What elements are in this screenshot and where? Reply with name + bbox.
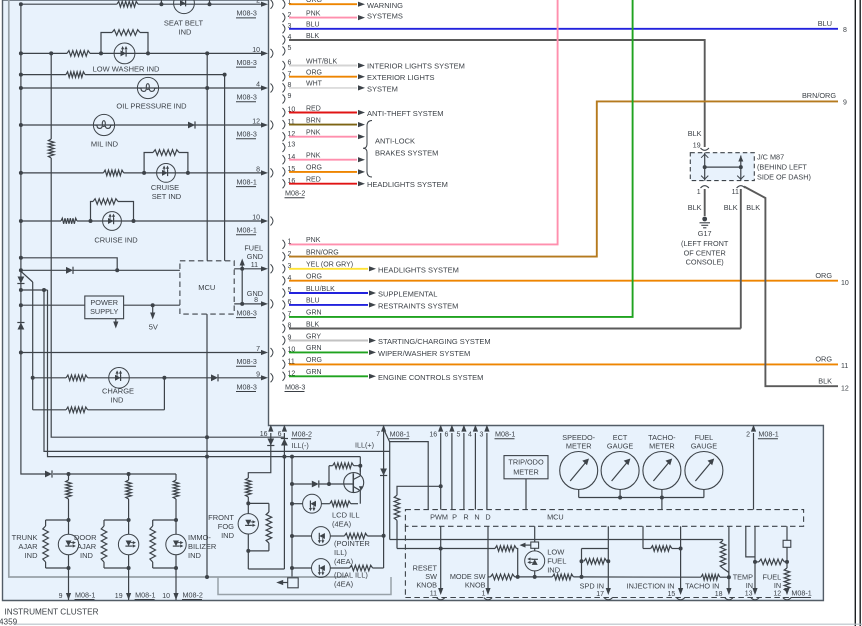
node door ajar ind bot: [127, 566, 131, 570]
arrow mode pin 1: [485, 588, 490, 595]
svg-text:(LEFT FRONT: (LEFT FRONT: [681, 239, 729, 248]
LED front fog ind: [238, 514, 258, 534]
wire spd in: [607, 526, 609, 590]
svg-text:TACHO-: TACHO-: [648, 433, 676, 442]
svg-text:BLU: BLU: [818, 19, 832, 28]
transistor lcd: [344, 473, 364, 493]
connector M08-3 pin 3: [283, 264, 285, 273]
svg-text:M08-1: M08-1: [390, 430, 410, 439]
LED low fuel ind: [534, 548, 536, 551]
svg-text:PNK: PNK: [306, 10, 321, 17]
svg-text:M08-3: M08-3: [237, 382, 257, 391]
wire ps gnd: [115, 319, 117, 322]
wire jc right exit: [740, 167, 742, 181]
LED cruise ind: [103, 212, 122, 231]
svg-text:FUEL: FUEL: [695, 433, 714, 442]
svg-text:GAUGE: GAUGE: [691, 442, 717, 451]
spd loop: [582, 548, 609, 550]
wire oil pressure row: [21, 87, 263, 89]
node ledbus pointer: [290, 534, 294, 538]
svg-text:DOOR: DOOR: [74, 533, 97, 542]
svg-text:KNOB: KNOB: [465, 581, 486, 590]
wire inj left vert: [642, 526, 644, 548]
hook mode pin: [484, 598, 492, 600]
svg-text:J/C M87: J/C M87: [757, 153, 784, 162]
wire m3 pin7 GRN: [289, 0, 633, 317]
svg-text:11: 11: [430, 591, 437, 598]
wire pin7 branch right: [390, 442, 429, 510]
node row3 mcu vert: [223, 73, 227, 77]
svg-text:(4EA): (4EA): [334, 557, 354, 566]
hook fuel pin: [783, 598, 791, 600]
pin 5 m08-1 top: [461, 425, 466, 432]
svg-text:WIPER/WASHER SYSTEM: WIPER/WASHER SYSTEM: [378, 349, 470, 358]
svg-text:11: 11: [841, 363, 848, 370]
svg-text:1: 1: [697, 189, 701, 196]
node trunk ajar ind top: [67, 518, 71, 522]
svg-text:ANTI-LOCK: ANTI-LOCK: [375, 137, 415, 146]
svg-text:17: 17: [596, 591, 604, 598]
svg-text:D: D: [485, 512, 490, 521]
pin 8 arrow: [261, 170, 268, 175]
node wireQ ledbus: [290, 455, 294, 459]
arrow reset pin 11: [438, 588, 443, 595]
hook jc pin19: [701, 148, 709, 150]
diode y484: [312, 481, 319, 488]
svg-text:PNK: PNK: [306, 153, 321, 160]
wire low fuel feed: [534, 526, 536, 542]
node fuel: [785, 560, 789, 564]
node temp: [753, 560, 757, 564]
svg-text:MCU: MCU: [198, 283, 215, 292]
connector M08-3 pin 12: [283, 372, 285, 381]
wire row 290: [21, 289, 48, 291]
connector M08-3 pin 5: [283, 289, 285, 298]
svg-text:(DIAL ILL): (DIAL ILL): [334, 571, 368, 580]
svg-text:PWM: PWM: [430, 512, 448, 521]
arrow ps gnd: [113, 322, 118, 329]
svg-text:1: 1: [482, 591, 486, 598]
node mil bus: [19, 123, 23, 127]
svg-text:INTERIOR LIGHTS SYSTEM: INTERIOR LIGHTS SYSTEM: [367, 62, 465, 71]
connector M08-2 pin 6: [283, 61, 285, 70]
svg-text:OF CENTER: OF CENTER: [684, 248, 726, 257]
indicator feed wire: [53, 473, 176, 475]
node 290 bus: [19, 288, 23, 292]
svg-text:M08-3: M08-3: [285, 382, 305, 391]
resistor tacho lower: [701, 574, 720, 580]
svg-text:5: 5: [456, 432, 460, 439]
svg-text:(BEHIND LEFT: (BEHIND LEFT: [757, 163, 807, 172]
connector M08-2 pin 9: [283, 95, 285, 104]
node cs A: [142, 171, 146, 175]
pin 7 arrow: [261, 350, 268, 355]
MCU dashed box: [180, 261, 234, 314]
connector M08-3 pin 2: [283, 252, 285, 261]
brace anti-lock: [363, 121, 372, 178]
connector M08-2 pin 14: [283, 155, 285, 164]
node gnd: [240, 302, 244, 306]
resistor mode: [491, 574, 515, 580]
svg-text:G17: G17: [698, 229, 712, 238]
pin 16 m08-1 top: [438, 425, 443, 432]
svg-text:4: 4: [256, 82, 260, 89]
resistor fuel row: [759, 559, 785, 565]
wire vert x47: [48, 290, 361, 457]
connector M08-2 pin 15: [283, 167, 285, 176]
diode ill minus 16: [267, 439, 274, 446]
node mode a: [516, 575, 520, 579]
svg-text:AJAR: AJAR: [77, 542, 97, 551]
svg-text:OIL PRESSURE IND: OIL PRESSURE IND: [116, 102, 187, 111]
arrow injection pin 15: [678, 588, 683, 595]
LED pointer ill: [312, 527, 331, 546]
svg-text:ORG: ORG: [815, 271, 832, 280]
wire cruise set row: [21, 172, 104, 174]
svg-text:METER: METER: [513, 468, 539, 477]
arrow spd pin 17: [606, 588, 611, 595]
wire mode sw: [487, 526, 489, 590]
diode indicator feed: [45, 471, 52, 478]
gauge ECT GAUGE: [601, 452, 639, 490]
gauge FUEL GAUGE: [685, 452, 723, 490]
connector M08-2 pin 12: [283, 132, 285, 141]
resistor dial: [350, 565, 373, 571]
svg-text:P: P: [452, 512, 457, 521]
node ci A: [89, 219, 93, 223]
connector M08-3 pin 10: [283, 348, 285, 357]
parallel resistor immobilizer ind: [153, 519, 176, 521]
resistor fuel vert: [784, 568, 790, 591]
svg-text:IN: IN: [746, 581, 753, 590]
wire ill feed down: [396, 520, 398, 548]
wire pin2 PNK: [289, 17, 357, 19]
svg-text:BLK: BLK: [306, 321, 320, 328]
svg-text:M08-1: M08-1: [237, 177, 257, 186]
hook spd pin: [604, 598, 612, 600]
svg-text:9: 9: [288, 93, 292, 100]
svg-text:2: 2: [746, 432, 750, 439]
node oil bus: [19, 86, 23, 90]
resistor front fog top: [246, 478, 252, 497]
svg-text:7: 7: [256, 346, 260, 353]
svg-text:SET IND: SET IND: [152, 192, 182, 201]
resistor cruise set: [103, 170, 123, 176]
wire ill minus pin6 vert: [283, 433, 285, 569]
diode ill plus: [380, 469, 387, 476]
resistor door ajar ind top: [126, 480, 132, 499]
svg-text:M08-3: M08-3: [237, 93, 257, 102]
low fuel square: [531, 542, 539, 548]
wire m3 pin6 BLU: [289, 304, 368, 306]
svg-text:CRUISE: CRUISE: [151, 183, 179, 192]
svg-text:IMMO-: IMMO-: [188, 533, 211, 542]
connector M08-2 pin 10: [283, 108, 285, 117]
pin 9 arrow: [261, 375, 268, 380]
pin 4 arrow: [261, 85, 268, 90]
svg-text:ORG: ORG: [306, 165, 322, 172]
parallel resistor door ajar ind: [104, 519, 129, 521]
wire y548 segment A: [397, 548, 495, 550]
svg-text:10: 10: [252, 215, 260, 222]
bulb oil pressure ind: [137, 77, 158, 98]
svg-text:YEL (OR GRY): YEL (OR GRY): [306, 262, 353, 269]
wire left inner bus: [9, 0, 347, 577]
node lw B: [146, 51, 150, 55]
node injection cross: [679, 547, 683, 551]
wire m3 pin5 BLU/BLK: [289, 292, 368, 294]
resistor cruise ind: [61, 218, 77, 224]
wire ill plus vertical: [383, 429, 385, 568]
node ci bus: [19, 219, 23, 223]
svg-text:METER: METER: [566, 442, 592, 451]
svg-text:FUEL: FUEL: [547, 556, 566, 565]
node row3 bus: [19, 73, 23, 77]
wire pin16 RED: [289, 183, 357, 185]
wire charge lower row: [33, 409, 66, 411]
connector M08-2 pin 13: [283, 143, 285, 152]
wire pin11 BRN: [289, 124, 357, 126]
svg-text:WARNING: WARNING: [367, 1, 403, 10]
junction connector J/C M87 box: [690, 153, 754, 181]
svg-text:BLU: BLU: [306, 22, 320, 29]
svg-text:HEADLIGHTS SYSTEM: HEADLIGHTS SYSTEM: [378, 265, 459, 274]
wire pin7 branch vert: [389, 442, 391, 540]
wire trip odo down: [525, 479, 527, 510]
wire pin15 ORG: [289, 171, 357, 173]
arrow jc right down chevron: [737, 176, 744, 180]
wire fuel in: [786, 526, 788, 540]
svg-text:11: 11: [732, 189, 739, 196]
diode bus up: [18, 323, 25, 330]
svg-text:9: 9: [256, 371, 260, 378]
wire vert x51 lower: [51, 158, 284, 437]
LED low washer ind: [114, 43, 135, 64]
svg-text:METER: METER: [649, 442, 675, 451]
resistor spd lower: [552, 574, 573, 580]
node reset cross: [439, 547, 443, 551]
svg-text:13: 13: [288, 142, 296, 149]
svg-text:PNK: PNK: [306, 130, 321, 137]
node 5v tap: [151, 303, 155, 307]
arrow jc right up: [738, 156, 743, 162]
arrow fuel pin 12: [784, 588, 789, 595]
wire lcd loop vert: [328, 466, 330, 484]
svg-text:MCU: MCU: [547, 512, 564, 521]
fuel square: [783, 540, 791, 547]
wire pin3 BLU long: [289, 28, 838, 30]
node charge left: [31, 376, 35, 380]
node ci B: [132, 219, 136, 223]
svg-text:HEADLIGHTS SYSTEM: HEADLIGHTS SYSTEM: [367, 180, 448, 189]
svg-text:11: 11: [251, 262, 258, 269]
pin 10 arrow row7: [261, 218, 268, 223]
svg-text:ILL): ILL): [334, 548, 347, 557]
svg-text:IND: IND: [80, 551, 94, 560]
resistor seat belt: [117, 1, 138, 7]
svg-text:M08-1: M08-1: [75, 590, 95, 599]
page border right: [854, 0, 856, 626]
svg-text:BLK: BLK: [724, 203, 738, 212]
svg-text:ANTI-THEFT SYSTEM: ANTI-THEFT SYSTEM: [367, 109, 444, 118]
svg-text:8: 8: [256, 166, 260, 173]
svg-text:12: 12: [252, 119, 260, 126]
parallel resistor trunk ajar ind: [46, 519, 69, 521]
connector M08-3 pin 6: [283, 300, 285, 309]
svg-text:6: 6: [444, 432, 448, 439]
node ps bus: [19, 303, 23, 307]
svg-text:BRN/ORG: BRN/ORG: [802, 91, 836, 100]
wire reset sw: [440, 526, 442, 590]
wire injection in: [680, 526, 682, 590]
parallel resistor front fog: [248, 502, 269, 504]
svg-text:ORG: ORG: [815, 355, 832, 364]
node mcu bottom end: [205, 575, 209, 579]
wire mode row: [488, 576, 491, 578]
wire ps out: [124, 304, 180, 306]
svg-text:M08-2: M08-2: [292, 430, 312, 439]
LED trunk ajar ind: [58, 534, 78, 554]
hook reset pin: [437, 598, 445, 600]
arrow fuel gnd up: [240, 259, 245, 266]
wire m3 pin4 ORG: [289, 280, 838, 282]
svg-text:16: 16: [429, 432, 437, 439]
resistor low fuel feed: [495, 546, 517, 552]
wire pointer row: [292, 535, 312, 537]
hook jc pin1: [701, 186, 709, 188]
svg-text:4: 4: [468, 432, 472, 439]
svg-text:FRONT: FRONT: [208, 513, 234, 522]
svg-text:M08-1: M08-1: [758, 430, 778, 439]
svg-text:GND: GND: [247, 252, 263, 261]
MCU dashed strip: [405, 510, 803, 527]
wire y484 diode row: [292, 483, 312, 485]
svg-text:CHARGE: CHARGE: [102, 386, 134, 395]
connector M08-3 pin 4: [283, 276, 285, 285]
svg-text:IND: IND: [188, 551, 202, 560]
pin 8 arrow gnd: [261, 301, 268, 306]
svg-text:M08-3: M08-3: [237, 308, 257, 317]
resistor charge lower: [66, 407, 88, 413]
wire jc right up: [740, 156, 742, 168]
svg-text:BLK: BLK: [688, 203, 702, 212]
wire mcu bottom vert: [206, 314, 208, 577]
node fog top: [246, 501, 250, 505]
svg-text:BLU: BLU: [306, 298, 320, 305]
svg-text:LOW: LOW: [547, 547, 565, 556]
arrow jc left down chevron: [701, 176, 708, 180]
wire pin7 ORG: [289, 76, 357, 78]
svg-text:WHT: WHT: [306, 81, 323, 88]
wire feed row a: [21, 258, 117, 271]
node jc left: [703, 165, 707, 169]
svg-text:BLK: BLK: [306, 33, 320, 40]
node jc right: [739, 165, 743, 169]
pin 4 m08-1 top: [473, 425, 478, 432]
wire m3 pin9 GRY: [289, 340, 368, 342]
wire ill minus pin16 vert: [248, 433, 270, 478]
wire pin12 PNK: [289, 136, 357, 138]
node fuel gnd: [240, 267, 244, 271]
node feed b join: [115, 268, 119, 272]
svg-text:M08-1: M08-1: [791, 588, 811, 597]
svg-text:R: R: [463, 512, 468, 521]
node low fuel bot: [533, 575, 537, 579]
wire lcd collector join: [359, 457, 361, 466]
wire m3 pin2 BRN/ORG: [289, 101, 838, 256]
node lw bus: [19, 51, 23, 55]
pin 6 m08-1 top: [449, 425, 454, 432]
wire pin1 ORG: [289, 3, 357, 5]
wire pin7 row: [21, 352, 263, 354]
wire mcu vert row2: [206, 53, 208, 260]
connector M08-2 pin 16: [283, 179, 285, 188]
ground G17: [702, 217, 707, 222]
node y484 loop: [327, 482, 331, 486]
node cs bus: [19, 171, 23, 175]
wire row3: [21, 74, 66, 76]
svg-text:RED: RED: [306, 177, 321, 184]
svg-text:IND: IND: [221, 531, 235, 540]
LED lcd ill: [303, 494, 322, 513]
svg-text:ENGINE CONTROLS SYSTEM: ENGINE CONTROLS SYSTEM: [378, 373, 483, 382]
resistor pointer: [344, 533, 367, 539]
node cs B: [186, 171, 190, 175]
node oil mcu vert: [205, 86, 209, 90]
node feed door: [127, 472, 131, 476]
gauge SPEEDO- METER: [560, 452, 598, 490]
arrow pin 9: [66, 593, 71, 600]
svg-text:7: 7: [376, 431, 380, 438]
node gauge tacho: [660, 496, 664, 500]
node feed a bus: [19, 256, 23, 260]
svg-text:ILL(+): ILL(+): [355, 441, 374, 450]
connector M08-3 pin 8: [283, 324, 285, 333]
wire fuel gnd vert: [241, 262, 243, 304]
wire pin6 WHT/BLK: [289, 65, 357, 67]
svg-text:8: 8: [254, 297, 258, 304]
node spd loop a: [580, 559, 584, 563]
pin 2 arrow: [261, 2, 268, 7]
svg-text:IND: IND: [111, 395, 125, 404]
svg-text:15: 15: [668, 591, 676, 598]
wire led bus: [291, 457, 293, 577]
hook injection pin: [676, 598, 684, 600]
wire lcd row: [292, 503, 303, 505]
wire gnd row: [234, 303, 263, 305]
svg-text:GRN: GRN: [306, 369, 322, 376]
svg-text:2: 2: [256, 0, 260, 5]
connector M08-2 pin 4: [283, 36, 285, 45]
svg-text:IND: IND: [547, 565, 561, 574]
wire vert x44: [44, 290, 390, 451]
wire temp elbow: [746, 526, 755, 557]
wire fuel gnd row: [234, 268, 263, 270]
wire seat belt row: [21, 3, 117, 5]
svg-text:SUPPLY: SUPPLY: [90, 307, 118, 316]
svg-text:SYSTEM: SYSTEM: [367, 85, 398, 94]
svg-text:IND: IND: [179, 28, 193, 37]
svg-text:INSTRUMENT CLUSTER: INSTRUMENT CLUSTER: [5, 608, 99, 617]
svg-text:BLK: BLK: [688, 129, 702, 138]
svg-text:6: 6: [278, 431, 282, 438]
svg-text:9: 9: [843, 99, 847, 106]
svg-text:M08-2: M08-2: [183, 590, 203, 599]
svg-text:4359: 4359: [0, 617, 18, 626]
connector M08-2 pin 5: [283, 47, 285, 56]
svg-text:(POINTER: (POINTER: [334, 539, 370, 548]
wire door ajar ind branch: [128, 474, 130, 480]
